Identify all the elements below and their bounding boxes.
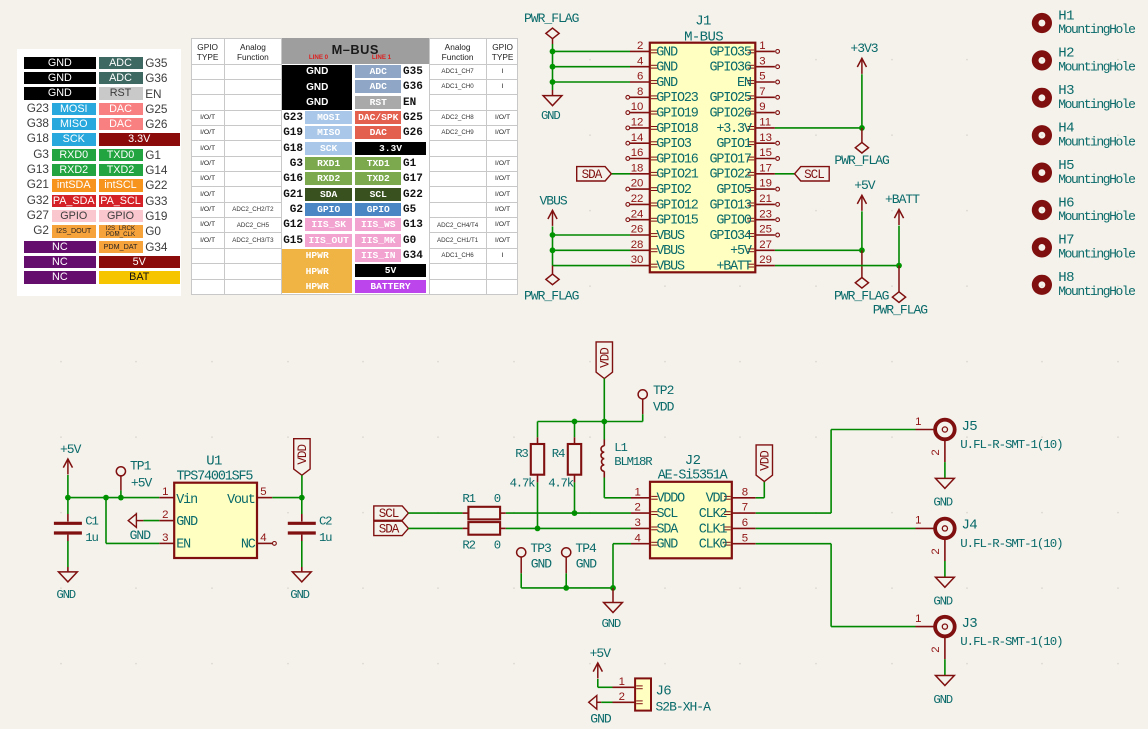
wire xyxy=(597,679,599,687)
svg-text:18: 18 xyxy=(631,162,644,174)
wire xyxy=(552,226,554,265)
svg-text:25: 25 xyxy=(759,224,772,236)
svg-text:VDDO: VDDO xyxy=(657,492,686,507)
svg-text:BLM18R: BLM18R xyxy=(614,455,653,469)
mounting hole H5 xyxy=(1032,158,1135,187)
junction xyxy=(103,495,109,501)
svg-text:MountingHole: MountingHole xyxy=(1058,172,1135,187)
legend row 6: G18 SCK 3.3V xyxy=(14,132,49,145)
svg-text:GND: GND xyxy=(657,538,679,553)
wire xyxy=(601,701,612,703)
svg-text:GND: GND xyxy=(933,693,952,707)
svg-text:VDD: VDD xyxy=(706,492,728,507)
svg-text:20: 20 xyxy=(631,178,644,190)
inductor L1 BLM18R xyxy=(601,440,653,478)
svg-text:VBUS: VBUS xyxy=(656,244,685,259)
M-BUS row 13 xyxy=(355,249,401,262)
svg-text:VDD: VDD xyxy=(653,399,675,414)
wire xyxy=(67,541,69,567)
wire xyxy=(861,211,863,250)
power +BATT xyxy=(885,192,920,225)
svg-text:2: 2 xyxy=(930,449,942,455)
svg-text:GND: GND xyxy=(130,528,152,543)
svg-text:U.FL-R-SMT-1(10): U.FL-R-SMT-1(10) xyxy=(960,537,1062,551)
svg-text:CLK2: CLK2 xyxy=(699,507,728,522)
ground xyxy=(933,577,954,608)
svg-text:7: 7 xyxy=(742,502,748,514)
mounting hole H6 xyxy=(1032,195,1135,224)
svg-text:TP3: TP3 xyxy=(530,541,551,556)
svg-text:GPIO22: GPIO22 xyxy=(709,168,751,183)
svg-text:4.7k: 4.7k xyxy=(548,476,574,490)
svg-text:J4: J4 xyxy=(962,518,978,534)
power flag PWR_FLAG (+BATT) xyxy=(873,266,928,318)
wire xyxy=(861,74,863,128)
M-BUS row 11 xyxy=(270,219,303,231)
svg-text:GND: GND xyxy=(933,496,952,510)
svg-text:+3.3V: +3.3V xyxy=(716,122,752,137)
wire xyxy=(408,512,462,514)
svg-text:26: 26 xyxy=(631,224,644,236)
wire xyxy=(537,482,539,528)
wire xyxy=(120,490,122,497)
wire xyxy=(612,173,631,175)
power VBUS xyxy=(540,194,568,226)
wire xyxy=(301,498,303,514)
svg-text:+BATT: +BATT xyxy=(885,192,920,207)
svg-text:28: 28 xyxy=(631,239,644,251)
J1 pin numbers xyxy=(631,40,772,266)
svg-text:GPIO16: GPIO16 xyxy=(656,152,698,167)
ground xyxy=(67,567,69,572)
svg-text:VDD: VDD xyxy=(759,451,773,471)
svg-text:4: 4 xyxy=(634,532,640,544)
legend row 10: G32 PA_SDA PA_SCL G33 xyxy=(14,194,49,207)
svg-text:+5V: +5V xyxy=(131,476,153,491)
wire xyxy=(574,482,576,513)
svg-text:L1: L1 xyxy=(614,441,627,455)
svg-text:SDA: SDA xyxy=(379,523,400,537)
junction xyxy=(65,495,71,501)
svg-text:GPIO19: GPIO19 xyxy=(656,107,698,122)
connector J6 S2B-XH-A xyxy=(613,676,712,714)
M-BUS pinout table xyxy=(191,38,519,294)
wire xyxy=(537,422,539,438)
svg-text:GND: GND xyxy=(531,557,553,572)
wire xyxy=(538,421,643,423)
M-BUS row 2 xyxy=(355,80,401,93)
M-BUS header xyxy=(282,38,429,63)
svg-text:TP2: TP2 xyxy=(653,383,674,398)
legend row 1: GND ADC G35 xyxy=(24,57,96,70)
coax connector J4 U.FL-R-SMT-1(10) xyxy=(915,515,1062,561)
wire xyxy=(553,265,631,267)
svg-text:GPIO35: GPIO35 xyxy=(709,45,751,60)
svg-text:1u: 1u xyxy=(319,531,332,545)
svg-text:EN: EN xyxy=(737,76,751,91)
svg-text:5: 5 xyxy=(260,486,266,498)
svg-text:GND: GND xyxy=(541,109,560,123)
svg-text:1: 1 xyxy=(915,416,921,428)
legend row 2: GND ADC G36 xyxy=(24,72,96,85)
svg-text:8: 8 xyxy=(742,486,748,498)
svg-text:SDA: SDA xyxy=(657,522,680,537)
mounting hole H1 xyxy=(1032,8,1135,37)
svg-text:GPIO15: GPIO15 xyxy=(656,214,698,229)
svg-text:5: 5 xyxy=(759,71,765,83)
wire CLK1 xyxy=(756,527,916,529)
coax connector J5 U.FL-R-SMT-1(10) xyxy=(915,416,1062,462)
wire CLK2 xyxy=(756,512,831,514)
junction xyxy=(572,419,578,425)
svg-text:GPIO34: GPIO34 xyxy=(709,229,751,244)
M-BUS row 8 xyxy=(270,173,303,185)
svg-text:0: 0 xyxy=(494,539,501,553)
svg-text:SCL: SCL xyxy=(804,168,824,182)
svg-text:GPIO23: GPIO23 xyxy=(656,91,698,106)
svg-text:+5V: +5V xyxy=(854,178,876,193)
resistor R4 4.7k xyxy=(548,437,581,490)
svg-text:16: 16 xyxy=(631,147,644,159)
mounting hole H2 xyxy=(1032,46,1135,75)
svg-text:U1: U1 xyxy=(206,454,222,470)
power flag PWR_FLAG (VBUS) xyxy=(524,266,579,304)
global label VDD (top) xyxy=(596,342,612,379)
svg-text:2: 2 xyxy=(930,548,942,554)
wire xyxy=(553,249,631,251)
svg-text:J5: J5 xyxy=(962,419,978,435)
svg-text:15: 15 xyxy=(759,147,772,159)
wire xyxy=(944,659,946,675)
svg-text:1: 1 xyxy=(915,613,921,625)
M-BUS row 4 xyxy=(270,112,303,124)
ground (J6, arrow style) xyxy=(589,696,612,727)
svg-text:SDA: SDA xyxy=(582,168,603,182)
svg-text:2: 2 xyxy=(637,40,643,52)
svg-text:VBUS: VBUS xyxy=(656,260,685,275)
resistor R1 0 xyxy=(462,492,505,519)
svg-text:PWR_FLAG: PWR_FLAG xyxy=(834,288,889,303)
mounting hole H8 xyxy=(1032,270,1135,299)
wire xyxy=(553,50,631,52)
legend row 14: NC 5V xyxy=(24,256,96,269)
svg-text:Vin: Vin xyxy=(176,493,197,508)
svg-text:2: 2 xyxy=(930,646,942,652)
svg-text:6: 6 xyxy=(637,71,643,83)
svg-text:3: 3 xyxy=(634,517,640,529)
wire xyxy=(944,462,946,478)
svg-text:11: 11 xyxy=(759,117,771,129)
mounting hole H7 xyxy=(1032,233,1135,262)
svg-text:+3V3: +3V3 xyxy=(850,41,877,56)
svg-text:0: 0 xyxy=(494,492,501,506)
svg-text:PWR_FLAG: PWR_FLAG xyxy=(524,289,579,304)
legend row 8: G13 RXD2 TXD2 G14 xyxy=(14,163,49,176)
wire xyxy=(574,422,576,438)
svg-text:M-BUS: M-BUS xyxy=(684,29,723,45)
wire xyxy=(565,573,567,588)
svg-text:SCL: SCL xyxy=(657,507,679,522)
test point TP2 xyxy=(638,383,675,414)
svg-text:J1: J1 xyxy=(695,14,711,30)
svg-text:CLK0: CLK0 xyxy=(699,538,728,553)
junction xyxy=(118,495,124,501)
svg-text:GPIO18: GPIO18 xyxy=(656,122,698,137)
legend row 11: G27 GPIO GPIO G19 xyxy=(14,209,49,222)
svg-text:10: 10 xyxy=(631,101,644,113)
ground xyxy=(933,676,954,707)
test point TP1 xyxy=(116,458,152,490)
ground xyxy=(933,478,954,509)
svg-text:VDD: VDD xyxy=(296,445,310,465)
wire xyxy=(775,265,899,267)
svg-text:GPIO25: GPIO25 xyxy=(709,91,751,106)
legend row 5: G38 MISO DAC G26 xyxy=(14,117,49,130)
svg-text:MountingHole: MountingHole xyxy=(1058,134,1135,149)
junction xyxy=(859,125,865,131)
capacitor C1 xyxy=(67,514,69,522)
M-BUS row 5 xyxy=(270,127,303,139)
junction xyxy=(550,247,556,253)
global label VDD (U1) xyxy=(294,439,310,476)
junction xyxy=(299,495,305,501)
svg-text:MountingHole: MountingHole xyxy=(1058,209,1135,224)
svg-text:GND: GND xyxy=(933,595,952,609)
svg-text:GND: GND xyxy=(602,617,621,631)
svg-text:+5V: +5V xyxy=(590,646,612,661)
power flag PWR_FLAG (+3V3) xyxy=(834,128,889,168)
svg-text:29: 29 xyxy=(759,254,772,266)
M-BUS row 9 xyxy=(270,189,303,201)
svg-text:GPIO0: GPIO0 xyxy=(716,214,752,229)
wire xyxy=(67,498,69,514)
wire xyxy=(67,475,69,498)
M-BUS row 3 xyxy=(355,96,401,109)
power flag PWR_FLAG (J1 GND rail) xyxy=(524,11,579,44)
legend row 12: G2 I2S_DOUT I2S_LRCK /PDM_CLK G0 xyxy=(14,224,49,237)
svg-text:1: 1 xyxy=(634,486,640,498)
svg-text:GND: GND xyxy=(56,588,75,602)
svg-text:TPS74001SF5: TPS74001SF5 xyxy=(177,470,254,485)
J2 pins xyxy=(631,486,756,552)
HPWR block xyxy=(282,249,352,294)
svg-text:GPIO12: GPIO12 xyxy=(656,198,698,213)
wire xyxy=(408,527,462,529)
wire xyxy=(272,497,302,499)
junction xyxy=(535,526,541,532)
svg-text:7: 7 xyxy=(759,86,765,98)
svg-text:24: 24 xyxy=(631,208,644,220)
M-BUS row 12 xyxy=(270,235,303,247)
svg-text:3: 3 xyxy=(759,55,765,67)
svg-text:EN: EN xyxy=(176,537,190,552)
legend row 3: GND RST EN xyxy=(24,87,96,100)
junction xyxy=(550,64,556,70)
wire xyxy=(898,226,900,266)
global label SCL (J2) xyxy=(374,506,409,520)
svg-text:VBUS: VBUS xyxy=(656,229,685,244)
svg-text:+BATT: +BATT xyxy=(716,260,752,275)
svg-text:1: 1 xyxy=(619,676,625,688)
svg-text:1: 1 xyxy=(162,486,168,498)
svg-text:MountingHole: MountingHole xyxy=(1058,284,1135,299)
wire xyxy=(775,249,862,251)
junction xyxy=(610,585,616,591)
svg-text:30: 30 xyxy=(631,254,644,266)
M-BUS row 1 xyxy=(355,65,401,78)
ground xyxy=(301,567,303,572)
J1 pin names xyxy=(656,45,752,274)
svg-text:GND: GND xyxy=(656,76,678,91)
svg-text:PWR_FLAG: PWR_FLAG xyxy=(873,302,928,317)
svg-text:5: 5 xyxy=(742,532,748,544)
svg-text:GPIO17: GPIO17 xyxy=(709,152,750,167)
svg-text:R4: R4 xyxy=(552,447,565,461)
wire xyxy=(944,561,946,577)
svg-text:1: 1 xyxy=(915,515,921,527)
svg-text:+5V: +5V xyxy=(60,442,82,457)
svg-text:8: 8 xyxy=(637,86,643,98)
wire xyxy=(506,527,631,529)
svg-text:3: 3 xyxy=(162,532,168,544)
svg-text:GND: GND xyxy=(590,712,612,727)
test point TP4 xyxy=(562,541,598,574)
svg-text:MountingHole: MountingHole xyxy=(1058,247,1135,262)
legend row 4: G23 MOSI DAC G25 xyxy=(14,102,49,115)
svg-text:12: 12 xyxy=(631,117,644,129)
svg-text:+5V: +5V xyxy=(730,244,752,259)
wire xyxy=(603,379,605,422)
wire xyxy=(521,587,613,589)
svg-text:6: 6 xyxy=(742,517,748,529)
svg-text:C1: C1 xyxy=(85,514,98,528)
svg-text:GPIO1: GPIO1 xyxy=(716,137,752,152)
M-BUS row 14 xyxy=(355,264,425,277)
M-BUS row 10 xyxy=(270,204,303,216)
svg-text:MountingHole: MountingHole xyxy=(1058,60,1135,75)
GND block xyxy=(282,65,352,110)
svg-text:GPIO3: GPIO3 xyxy=(656,137,692,152)
global label SDA (J2) xyxy=(374,521,409,535)
svg-text:AE-Si5351A: AE-Si5351A xyxy=(658,469,729,484)
svg-text:27: 27 xyxy=(759,239,772,251)
wire xyxy=(301,475,303,497)
global label SDA xyxy=(577,167,612,181)
wire xyxy=(520,573,522,588)
capacitor C2 xyxy=(301,514,303,522)
M-BUS row 6 xyxy=(270,143,303,155)
svg-text:23: 23 xyxy=(759,208,772,220)
svg-text:1u: 1u xyxy=(85,531,98,545)
svg-text:4: 4 xyxy=(260,532,266,544)
ground xyxy=(541,90,562,123)
svg-text:U.FL-R-SMT-1(10): U.FL-R-SMT-1(10) xyxy=(960,438,1062,452)
svg-text:13: 13 xyxy=(759,132,772,144)
wire CLK0 xyxy=(756,543,831,545)
J1 pins left xyxy=(626,50,658,267)
power +5V (J6) xyxy=(590,646,612,678)
legend row 15: NC BAT xyxy=(24,271,96,284)
test point TP3 xyxy=(517,541,553,574)
svg-text:GPIO5: GPIO5 xyxy=(716,183,752,198)
svg-text:J2: J2 xyxy=(685,453,701,469)
wire xyxy=(553,81,631,83)
M-BUS row 15 xyxy=(355,280,425,293)
wire xyxy=(506,512,631,514)
svg-text:TP4: TP4 xyxy=(575,541,597,556)
mounting hole H3 xyxy=(1032,83,1135,112)
connector J1 M-BUS xyxy=(650,14,756,273)
power +5V xyxy=(854,178,876,211)
svg-text:TP1: TP1 xyxy=(130,458,152,473)
IC U1 TPS74001SF5 xyxy=(159,454,276,559)
svg-text:SCL: SCL xyxy=(379,507,399,521)
wire xyxy=(756,497,765,499)
wire xyxy=(613,543,631,545)
svg-text:GND: GND xyxy=(656,45,678,60)
svg-text:GND: GND xyxy=(290,588,309,602)
J1 pins right xyxy=(748,50,780,268)
svg-text:2: 2 xyxy=(619,691,625,703)
svg-text:VDD: VDD xyxy=(599,348,613,368)
wire (EN) xyxy=(105,498,107,544)
svg-text:1: 1 xyxy=(759,40,765,52)
wire xyxy=(68,497,159,499)
ground (U1 pin 2, arrow style) xyxy=(128,514,159,543)
svg-text:VBUS: VBUS xyxy=(540,194,568,209)
connector J2 AE-Si5351A xyxy=(650,453,732,559)
power +3V3 xyxy=(850,41,877,74)
svg-text:GND: GND xyxy=(176,515,198,530)
svg-text:4.7k: 4.7k xyxy=(510,476,536,490)
resistor R3 4.7k xyxy=(510,437,545,490)
svg-text:R1: R1 xyxy=(462,492,475,506)
svg-text:R3: R3 xyxy=(515,447,528,461)
svg-text:CLK1: CLK1 xyxy=(699,522,728,537)
svg-text:GND: GND xyxy=(576,557,598,572)
wire xyxy=(775,173,795,175)
wire xyxy=(603,478,605,498)
wire xyxy=(553,234,631,236)
coax connector J3 U.FL-R-SMT-1(10) xyxy=(915,613,1062,659)
svg-text:U.FL-R-SMT-1(10): U.FL-R-SMT-1(10) xyxy=(960,635,1062,649)
svg-text:GPIO13: GPIO13 xyxy=(709,198,751,213)
svg-text:21: 21 xyxy=(759,193,772,205)
svg-text:MountingHole: MountingHole xyxy=(1058,22,1135,37)
svg-text:22: 22 xyxy=(631,193,644,205)
legend row 9: G21 intSDA intSCL G22 xyxy=(14,178,49,191)
junction xyxy=(859,247,865,253)
legend row 13: NC PDM_DAT G34 xyxy=(24,241,96,254)
global label SCL xyxy=(795,167,830,181)
wire xyxy=(552,44,554,90)
svg-text:17: 17 xyxy=(759,162,772,174)
svg-text:2: 2 xyxy=(634,502,640,514)
wire xyxy=(301,541,303,567)
wire xyxy=(775,127,862,129)
svg-text:4: 4 xyxy=(637,55,643,67)
junction xyxy=(572,510,578,516)
svg-text:GPIO36: GPIO36 xyxy=(709,61,751,76)
junction xyxy=(550,79,556,85)
left pinout legend table xyxy=(17,49,181,296)
svg-text:Vout: Vout xyxy=(227,493,255,508)
svg-text:19: 19 xyxy=(759,178,772,190)
M-BUS row 7 xyxy=(270,158,303,170)
svg-text:9: 9 xyxy=(759,101,765,113)
svg-text:NC: NC xyxy=(241,537,256,552)
junction xyxy=(550,49,556,55)
